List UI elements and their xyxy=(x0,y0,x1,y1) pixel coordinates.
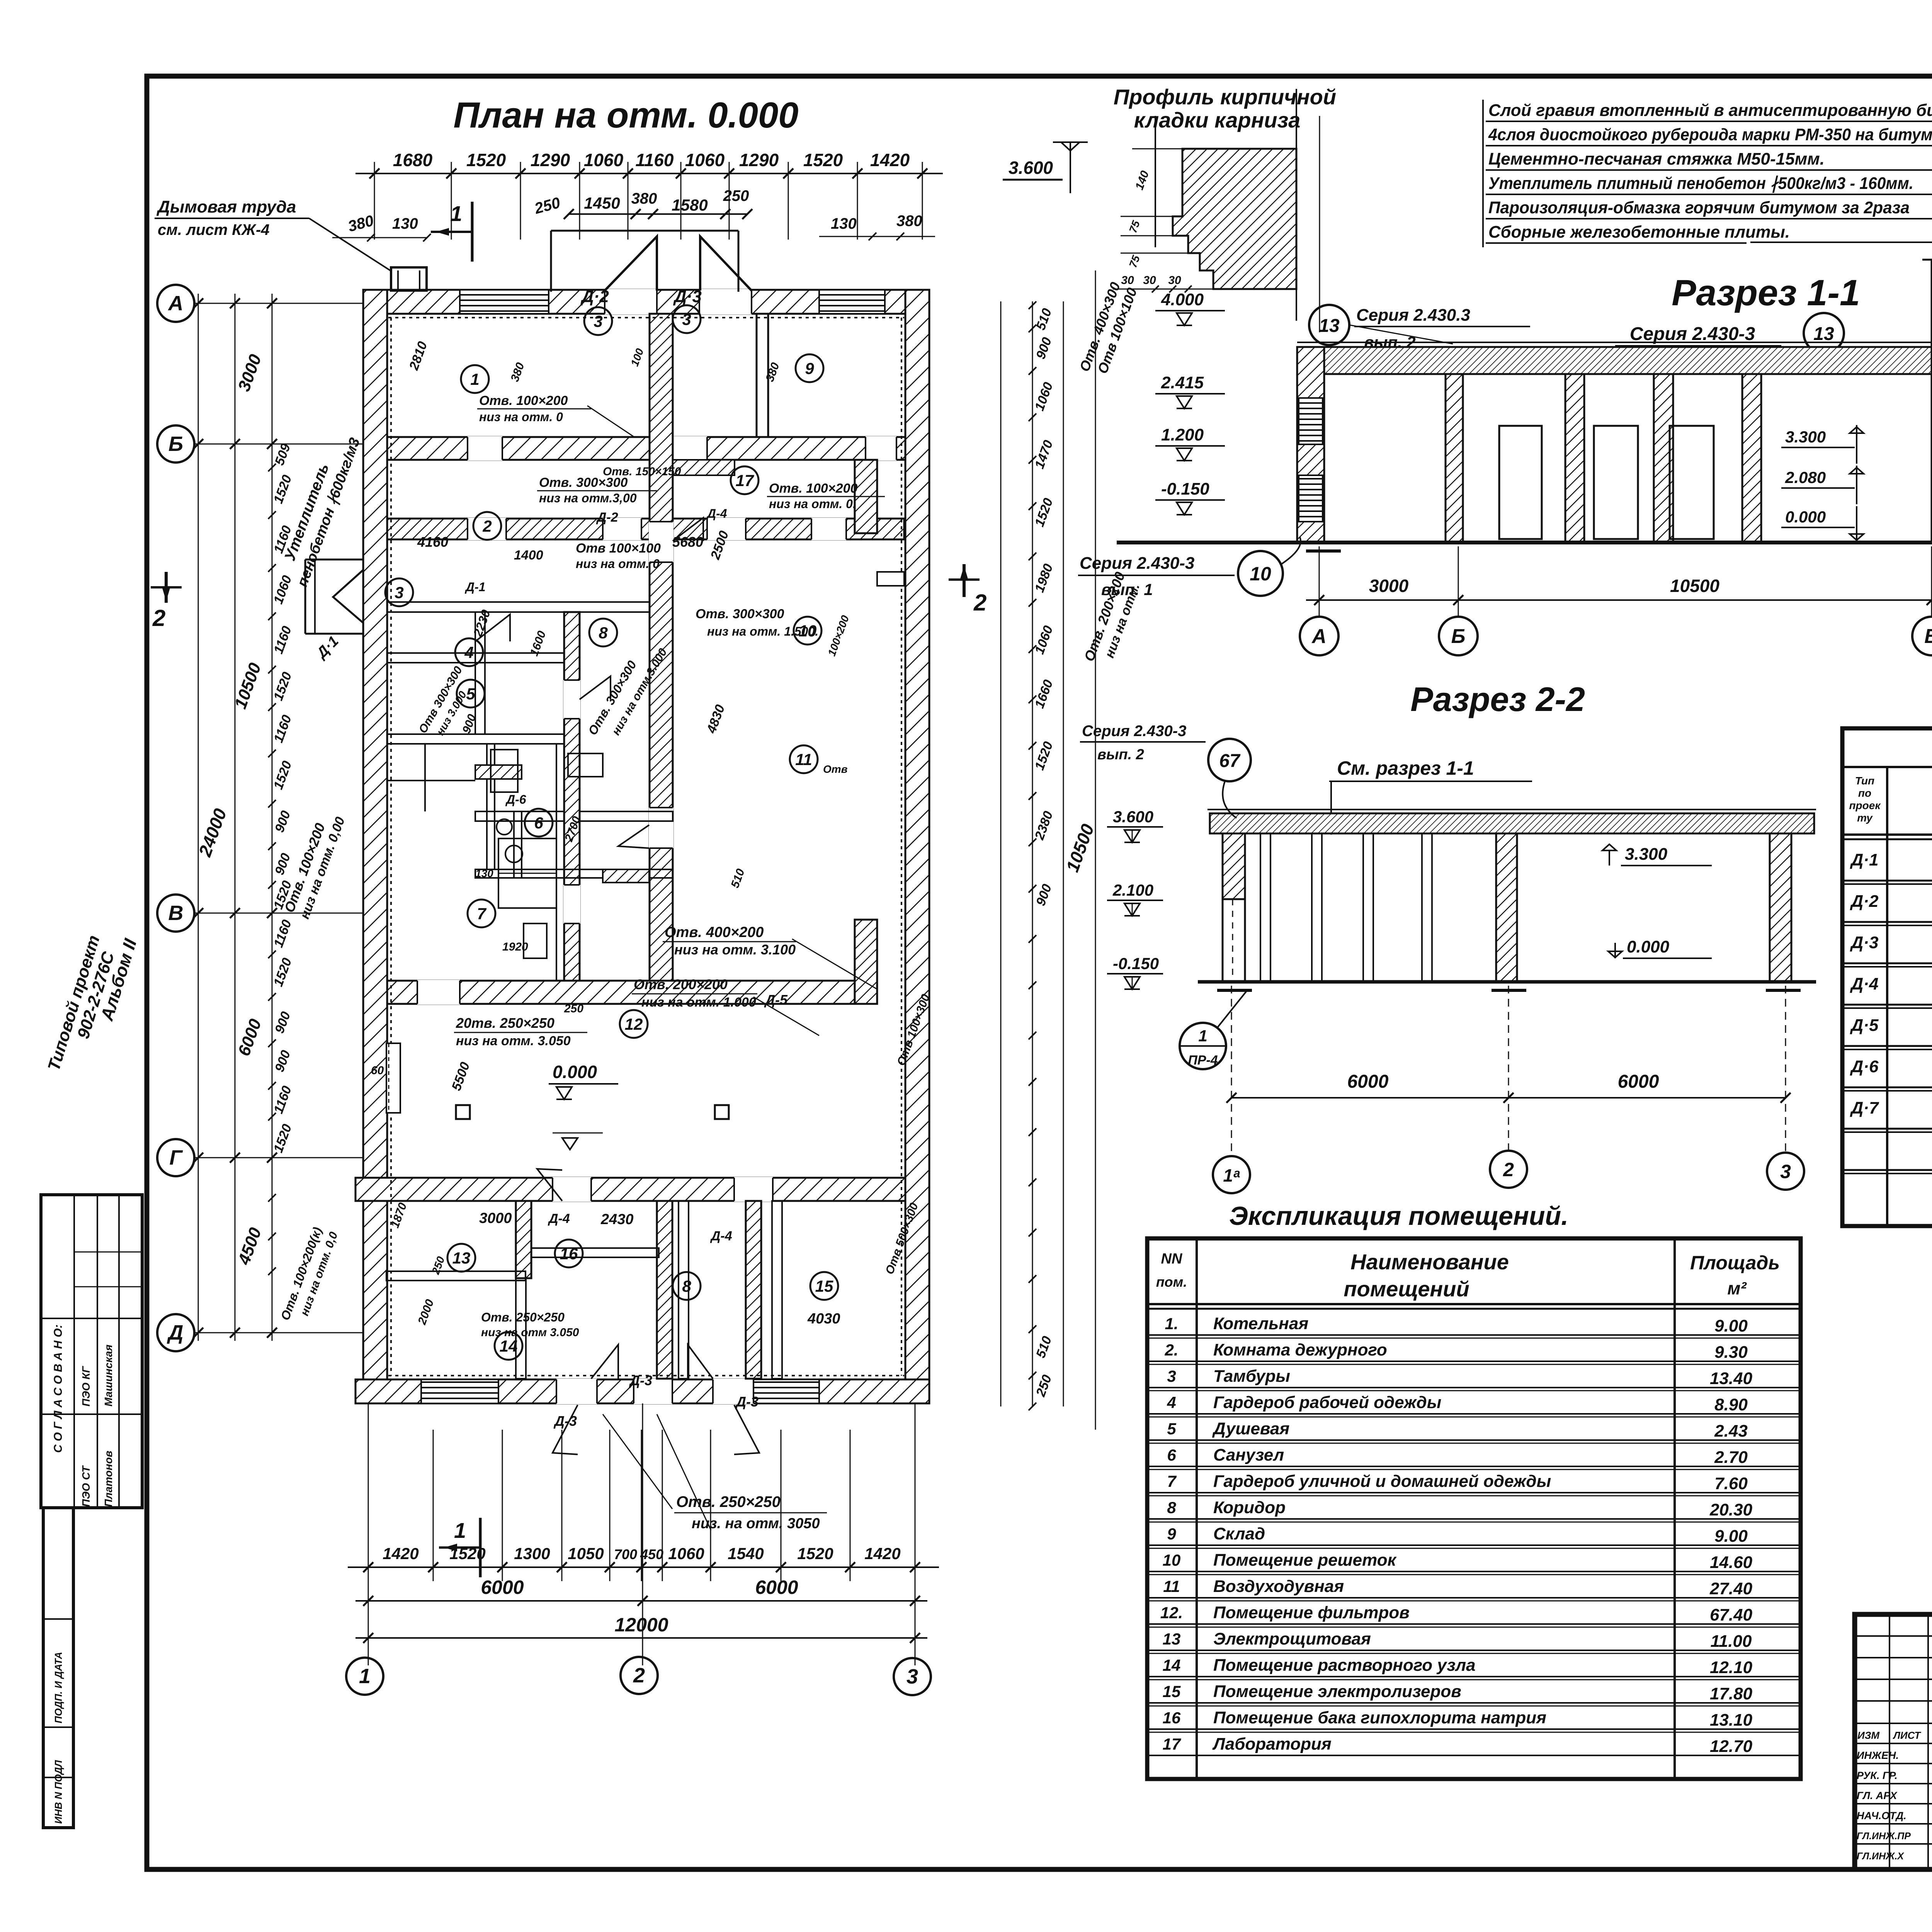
svg-text:6000: 6000 xyxy=(1347,1071,1389,1092)
svg-text:1420: 1420 xyxy=(383,1544,418,1563)
svg-text:1520: 1520 xyxy=(271,670,295,702)
svg-text:низ на отм. 0.: низ на отм. 0. xyxy=(769,497,856,511)
svg-text:1160: 1160 xyxy=(271,918,294,949)
dim line 12000 bottom xyxy=(355,1614,927,1643)
wall: bottom inner partition horizontal xyxy=(386,1248,659,1281)
dim labels 130/380 top-right xyxy=(819,213,935,240)
svg-text:Отв. 250×250: Отв. 250×250 xyxy=(481,1310,565,1324)
svg-text:Д·4: Д·4 xyxy=(1850,975,1879,993)
svg-text:9.00: 9.00 xyxy=(1714,1527,1748,1546)
svg-text:30: 30 xyxy=(1168,274,1181,287)
dim label 10500 (left) xyxy=(231,660,265,711)
svg-text:Платонов: Платонов xyxy=(102,1451,114,1507)
room number circle 15 (19) xyxy=(810,1272,838,1300)
plan annotation notes xyxy=(371,340,932,1532)
svg-text:2380: 2380 xyxy=(1032,809,1056,842)
dim chain bottom ticks xyxy=(363,1562,920,1572)
callout circle 10 xyxy=(1078,537,1301,599)
svg-text:8: 8 xyxy=(1167,1498,1176,1517)
callout 13 left leader xyxy=(1349,325,1453,344)
svg-text:Д-2: Д-2 xyxy=(596,510,618,525)
svg-text:5: 5 xyxy=(466,685,475,703)
svg-text:проек: проек xyxy=(1849,799,1881,811)
svg-text:1420: 1420 xyxy=(870,150,910,170)
svg-text:1300: 1300 xyxy=(514,1544,550,1563)
door opening row B wall 2 xyxy=(672,436,707,461)
svg-text:10500: 10500 xyxy=(231,660,265,711)
room number circle 2 (4) xyxy=(473,512,501,540)
window band bottom wall 1 xyxy=(421,1379,498,1403)
partition rooms 2/3 xyxy=(387,602,650,612)
svg-text:250: 250 xyxy=(1033,1373,1054,1399)
wall: small cell walls rooms 5-6 xyxy=(386,744,522,878)
svg-text:13: 13 xyxy=(1319,316,1340,336)
svg-text:30: 30 xyxy=(1121,274,1134,287)
axis circle А (section 1-1) xyxy=(1300,546,1338,655)
svg-text:Площадь: Площадь xyxy=(1690,1252,1780,1274)
svg-text:NN: NN xyxy=(1161,1251,1183,1267)
svg-text:100: 100 xyxy=(629,347,646,368)
dim label 3000 (left) xyxy=(235,352,265,394)
svg-text:510: 510 xyxy=(1033,1334,1054,1360)
door opening corridor-left 1 xyxy=(563,680,580,719)
dim ladder left axis ticks xyxy=(193,298,277,1338)
shower cell lines xyxy=(498,838,556,908)
svg-text:Воздуходувная: Воздуходувная xyxy=(1213,1577,1344,1596)
svg-text:1980: 1980 xyxy=(1032,562,1056,594)
svg-text:250: 250 xyxy=(564,1002,583,1015)
dim ladder right tall 10500 xyxy=(1062,270,1098,1430)
svg-text:ГЛ.ИНЖ.Х: ГЛ.ИНЖ.Х xyxy=(1857,1851,1904,1862)
svg-text:Отв. 300×300: Отв. 300×300 xyxy=(696,607,784,621)
svg-text:Д-3: Д-3 xyxy=(735,1394,759,1410)
axis circle В (section 1-1) xyxy=(1912,546,1932,655)
level mark 3.600 profile xyxy=(1003,142,1088,193)
left wall (section 2-2) xyxy=(1223,833,1245,982)
svg-text:900: 900 xyxy=(272,1048,293,1074)
svg-text:помещений: помещений xyxy=(1344,1277,1469,1301)
svg-text:Комната дежурного: Комната дежурного xyxy=(1213,1340,1387,1359)
section 1-1 subtitle xyxy=(1615,324,1781,369)
level mark spare xyxy=(0,0,0,0)
pier 4 (section 1-1) xyxy=(1742,374,1761,543)
svg-text:1540: 1540 xyxy=(728,1544,764,1563)
svg-text:низ на отм. 0: низ на отм. 0 xyxy=(576,557,660,571)
svg-text:Отв: Отв xyxy=(823,763,848,775)
svg-text:900: 900 xyxy=(272,851,293,877)
axis circle Б (section 1-1) xyxy=(1439,546,1478,655)
svg-text:Гардероб уличной и домашней од: Гардероб уличной и домашней одежды xyxy=(1213,1472,1551,1491)
svg-text:2.43: 2.43 xyxy=(1714,1422,1748,1440)
dim line 6000/6000 bottom xyxy=(355,1577,927,1665)
svg-text:Отв 100×100: Отв 100×100 xyxy=(576,541,661,556)
svg-text:3: 3 xyxy=(1167,1367,1176,1385)
svg-text:1: 1 xyxy=(450,201,462,226)
svg-text:17.80: 17.80 xyxy=(1710,1684,1753,1703)
door opening row B wall 3 xyxy=(866,436,896,461)
svg-text:Д·2: Д·2 xyxy=(580,287,609,306)
dim chain top main line xyxy=(355,173,943,174)
axis line В (plan) xyxy=(194,913,363,914)
svg-text:1160: 1160 xyxy=(271,1084,294,1116)
pier 3 (section 1-1) xyxy=(1654,374,1673,543)
svg-text:Д-3: Д-3 xyxy=(629,1372,652,1388)
svg-text:6000: 6000 xyxy=(1618,1071,1659,1092)
svg-text:2.100: 2.100 xyxy=(1112,881,1153,899)
right wall (section 2-2) xyxy=(1770,833,1791,982)
svg-text:1660: 1660 xyxy=(1032,678,1056,710)
partition bottom 16/8 xyxy=(679,1201,689,1379)
svg-text:Тамбуры: Тамбуры xyxy=(1213,1367,1290,1386)
section 2-2 title xyxy=(1410,680,1585,718)
axis circle Д (plan left) xyxy=(157,1314,194,1351)
svg-text:Электрощитовая: Электрощитовая xyxy=(1213,1629,1371,1648)
plumbing fixtures room5-6 xyxy=(491,750,603,835)
otv note right rot 2 xyxy=(1081,570,1143,663)
dim chain top labels xyxy=(393,150,910,170)
room number circle 17 (5) xyxy=(731,466,759,494)
svg-text:м²: м² xyxy=(1727,1278,1747,1298)
svg-text:Д-4: Д-4 xyxy=(548,1211,570,1226)
footings (section 1-1) xyxy=(1306,549,1932,553)
axis circle 2 (section 2-2) xyxy=(1490,1151,1527,1188)
svg-text:1060: 1060 xyxy=(1032,624,1056,656)
room number circle 7 (13) xyxy=(468,900,495,927)
svg-text:509: 509 xyxy=(272,442,293,467)
dim ladder right labels xyxy=(1032,306,1056,1399)
svg-text:Помещение бака гипохлорита нат: Помещение бака гипохлорита натрия xyxy=(1213,1708,1546,1727)
partition rooms 5/7 xyxy=(475,811,673,821)
svg-text:17: 17 xyxy=(736,471,754,490)
door opening rooms2/17 wall 3 xyxy=(707,518,746,540)
svg-text:5680: 5680 xyxy=(672,534,703,550)
doors between piers (section 1-1) xyxy=(1499,426,1714,539)
door opening bottom wall 2 xyxy=(634,1379,672,1404)
svg-text:1450: 1450 xyxy=(584,194,620,212)
axis circle Г (plan left) xyxy=(157,1139,194,1176)
svg-text:12: 12 xyxy=(625,1015,643,1033)
svg-text:7.60: 7.60 xyxy=(1714,1474,1748,1493)
wall: south of rooms 2/17 (horizontal) xyxy=(387,519,904,539)
svg-text:20.30: 20.30 xyxy=(1709,1500,1753,1519)
annotation underlines xyxy=(454,409,885,1513)
niche room12 left xyxy=(386,1043,400,1113)
svg-text:130: 130 xyxy=(831,215,857,232)
svg-text:Серия 2.430-3: Серия 2.430-3 xyxy=(1630,324,1755,344)
dim ladder left small labels xyxy=(271,442,295,1155)
svg-text:ИНВ N ПОДЛ: ИНВ N ПОДЛ xyxy=(53,1760,64,1824)
svg-text:вып. 1: вып. 1 xyxy=(1101,580,1153,599)
wall: bottom partition 16/8 hatched xyxy=(657,1201,672,1379)
svg-text:900: 900 xyxy=(1033,882,1054,908)
svg-text:900: 900 xyxy=(272,1010,293,1035)
svg-text:1520: 1520 xyxy=(1032,740,1056,772)
svg-text:13: 13 xyxy=(1163,1630,1181,1648)
room number circle 13 (15) xyxy=(447,1244,475,1272)
door opening corridor-left 2 xyxy=(563,885,580,923)
chimney on top wall xyxy=(391,267,427,291)
thin columns (section 2-2) xyxy=(1260,833,1432,982)
svg-text:Дымовая труда: Дымовая труда xyxy=(156,197,296,216)
otv note left rot 2 xyxy=(278,1225,340,1322)
svg-text:67: 67 xyxy=(1219,751,1241,771)
callout circle PR-4 xyxy=(1180,989,1248,1069)
door leafs left block xyxy=(475,518,703,848)
wall: shaft right upper xyxy=(855,460,877,533)
room number circle 9 (1) xyxy=(796,354,823,382)
svg-text:20тв. 250×250: 20тв. 250×250 xyxy=(456,1015,554,1031)
svg-text:3000: 3000 xyxy=(235,352,265,394)
wall: row G interior (horizontal) xyxy=(355,1178,905,1201)
svg-text:1160: 1160 xyxy=(271,713,294,745)
partition bottom 13/16 xyxy=(516,1201,526,1379)
svg-text:Отв. 100×200: Отв. 100×200 xyxy=(479,393,568,408)
wall stub room7 right xyxy=(603,869,649,883)
svg-text:1160: 1160 xyxy=(636,150,674,170)
svg-text:низ на отм. 1.500.: низ на отм. 1.500. xyxy=(707,624,818,638)
svg-text:1470: 1470 xyxy=(1032,438,1056,471)
svg-text:6000: 6000 xyxy=(235,1016,265,1058)
svg-text:А: А xyxy=(168,292,184,315)
wall: partition right of tambour xyxy=(757,314,768,437)
wall: shaft right lower xyxy=(855,920,877,1004)
otv note left rot xyxy=(281,815,348,921)
entrance vestibule outline (top) xyxy=(551,231,738,292)
axis line Б (plan) xyxy=(194,444,363,445)
wall: corridor south (horizontal) xyxy=(387,981,855,1004)
room number circle 6 (12) xyxy=(525,809,553,837)
svg-text:Д·1: Д·1 xyxy=(1850,850,1879,869)
svg-text:12.70: 12.70 xyxy=(1710,1737,1753,1756)
svg-text:Помещение растворного узла: Помещение растворного узла xyxy=(1213,1656,1476,1675)
svg-text:75: 75 xyxy=(1127,253,1142,269)
note: smoke flue xyxy=(155,197,390,270)
svg-text:4: 4 xyxy=(464,643,473,662)
svg-text:3000: 3000 xyxy=(1369,576,1409,596)
wc fixture xyxy=(505,845,547,958)
vedomost header row 2 xyxy=(1849,775,1932,824)
door opening rooms2/17 wall 1 xyxy=(468,518,506,540)
svg-text:ГЛ. АРХ: ГЛ. АРХ xyxy=(1857,1790,1898,1801)
door opening row G wall 2 xyxy=(734,1177,773,1202)
svg-text:Д-4: Д-4 xyxy=(706,507,727,520)
svg-text:Д-6: Д-6 xyxy=(505,793,526,806)
level 3.300 (section 2-2) xyxy=(1602,844,1712,866)
dim chain bottom ext lines xyxy=(368,1430,915,1581)
title block grid xyxy=(1855,1614,1932,1869)
explikacia header xyxy=(1156,1250,1780,1301)
axis circle В (plan left) xyxy=(157,895,194,932)
svg-text:2: 2 xyxy=(973,590,986,616)
wall: bottom partition 13/16 hatched xyxy=(516,1201,531,1278)
profile detail brick shape xyxy=(1173,149,1296,289)
svg-text:75: 75 xyxy=(1127,219,1142,234)
svg-text:14: 14 xyxy=(1163,1656,1181,1674)
svg-text:1ᵃ: 1ᵃ xyxy=(1223,1165,1240,1185)
svg-text:1420: 1420 xyxy=(864,1544,900,1563)
svg-text:24000: 24000 xyxy=(194,806,230,859)
svg-text:1520: 1520 xyxy=(271,956,295,988)
level mark 0.000 room 12 xyxy=(549,1062,618,1099)
svg-text:3: 3 xyxy=(395,583,403,602)
dim line (section 2-2) xyxy=(1226,986,1791,1155)
svg-text:низ на отм. 1.000: низ на отм. 1.000 xyxy=(641,995,756,1010)
wall: plan bottom exterior xyxy=(355,1379,929,1403)
dim ladder left verticals xyxy=(198,294,272,1341)
svg-text:3: 3 xyxy=(1780,1161,1791,1182)
svg-text:9: 9 xyxy=(805,359,814,378)
svg-text:6: 6 xyxy=(1167,1446,1176,1464)
svg-text:2: 2 xyxy=(482,517,492,535)
door opening central wall 2 xyxy=(649,808,673,848)
dim ladder right verticals xyxy=(1001,301,1063,1406)
svg-text:1520: 1520 xyxy=(271,1122,295,1155)
svg-text:Д·3: Д·3 xyxy=(673,287,702,306)
room number circle 8 (18) xyxy=(673,1272,701,1300)
svg-text:2: 2 xyxy=(633,1664,645,1687)
svg-text:27.40: 27.40 xyxy=(1709,1579,1753,1598)
svg-text:3.300: 3.300 xyxy=(1785,428,1826,446)
wall: plan right exterior xyxy=(905,290,929,1403)
svg-text:Д-3: Д-3 xyxy=(553,1413,577,1429)
level mark 4.000 (section 1-1 left ladder) xyxy=(1155,290,1225,325)
svg-text:4.000: 4.000 xyxy=(1161,290,1204,309)
dim labels (section 1-1) xyxy=(1369,576,1932,596)
svg-text:8.90: 8.90 xyxy=(1714,1395,1748,1414)
svg-text:7: 7 xyxy=(1167,1472,1177,1490)
svg-text:1: 1 xyxy=(454,1518,466,1543)
room number circle 5 (7) xyxy=(457,680,485,707)
svg-text:1060: 1060 xyxy=(271,573,295,606)
room number circle 3 (6) xyxy=(385,578,413,606)
svg-text:1060: 1060 xyxy=(584,150,624,170)
svg-text:380: 380 xyxy=(346,212,376,235)
svg-text:3: 3 xyxy=(906,1665,918,1688)
svg-text:Д·1: Д·1 xyxy=(313,633,342,662)
svg-text:10: 10 xyxy=(1250,563,1271,585)
callout circle 67 xyxy=(1208,739,1251,818)
partition rooms 4/5 xyxy=(387,734,572,744)
svg-text:1.: 1. xyxy=(1165,1315,1178,1333)
window in wall A xyxy=(1299,398,1323,522)
dim label 4500 (left) xyxy=(234,1225,265,1267)
svg-text:1060: 1060 xyxy=(685,150,725,170)
wall stub room10 niche xyxy=(877,572,904,586)
svg-text:14.60: 14.60 xyxy=(1710,1553,1753,1572)
roof slab A-V (section 1-1) xyxy=(1297,342,1932,374)
svg-text:низ на отм. 3.100: низ на отм. 3.100 xyxy=(674,942,796,957)
svg-text:10500: 10500 xyxy=(1670,576,1719,596)
pier 1 (section 1-1) xyxy=(1446,374,1463,543)
svg-text:1520: 1520 xyxy=(803,150,843,170)
svg-text:Д-4: Д-4 xyxy=(710,1229,732,1243)
svg-text:Слой гравия втопленный в антис: Слой гравия втопленный в антисептированн… xyxy=(1488,101,1932,120)
wall stub above room6 xyxy=(475,765,522,779)
room number circle 14 (17) xyxy=(495,1332,522,1360)
svg-text:1520: 1520 xyxy=(1032,496,1056,529)
level 3.300 (section 1-1 left) xyxy=(1781,425,1864,464)
dim label 24000 (left) xyxy=(194,806,230,859)
wall: plan left exterior xyxy=(363,290,387,1403)
svg-text:8: 8 xyxy=(599,624,608,642)
roof slab (section 2-2) xyxy=(1207,810,1816,833)
svg-text:4: 4 xyxy=(1167,1393,1176,1412)
svg-text:1: 1 xyxy=(1198,1027,1207,1045)
svg-text:9.30: 9.30 xyxy=(1714,1343,1748,1362)
dim chain top extension lines xyxy=(374,162,922,240)
wall: vertical corridor-left hatched xyxy=(564,612,580,981)
svg-text:4830: 4830 xyxy=(704,703,728,736)
svg-text:Помещение решеток: Помещение решеток xyxy=(1213,1551,1397,1570)
svg-text:ПОДП. И ДАТА: ПОДП. И ДАТА xyxy=(53,1652,64,1723)
svg-text:Д: Д xyxy=(167,1321,184,1344)
section mark 2 left xyxy=(151,572,182,631)
svg-text:2.080: 2.080 xyxy=(1785,468,1826,486)
insulation dashed line top wall xyxy=(388,317,904,318)
svg-text:Д·3: Д·3 xyxy=(1850,933,1879,952)
see section note xyxy=(1329,757,1532,835)
wall V (section 1-1) xyxy=(1932,275,1932,543)
axis circle 3 (plan bottom) xyxy=(894,1403,931,1695)
label D-2 xyxy=(580,287,609,306)
svg-text:380: 380 xyxy=(631,190,657,207)
svg-text:ту: ту xyxy=(1857,812,1873,824)
svg-text:Гардероб рабочей одежды: Гардероб рабочей одежды xyxy=(1213,1393,1441,1412)
dim ladder left small ticks xyxy=(268,440,276,1337)
svg-text:Отв. 400×200: Отв. 400×200 xyxy=(665,924,764,940)
level 0.000 (section 2-2) xyxy=(1608,937,1712,958)
svg-text:Отв. 200×200: Отв. 200×200 xyxy=(634,976,728,992)
svg-text:1060: 1060 xyxy=(668,1544,704,1563)
axis circle 1 (plan bottom) xyxy=(346,1403,383,1695)
svg-text:3000: 3000 xyxy=(479,1210,512,1226)
leader lines plan notes xyxy=(587,406,877,1530)
section mark 2 right xyxy=(949,564,986,616)
svg-text:1520: 1520 xyxy=(797,1544,833,1563)
svg-text:низ на отм.3,00: низ на отм.3,00 xyxy=(539,491,637,505)
svg-text:12000: 12000 xyxy=(614,1614,668,1636)
svg-text:5: 5 xyxy=(1167,1420,1176,1438)
door opening bottom wall 1 xyxy=(556,1379,597,1404)
svg-text:низ на отм. 3.050: низ на отм. 3.050 xyxy=(456,1034,571,1048)
svg-text:2: 2 xyxy=(152,605,165,631)
room number circle 8 (9) xyxy=(589,619,617,646)
svg-text:4030: 4030 xyxy=(807,1311,840,1327)
svg-text:380: 380 xyxy=(764,361,782,384)
callout circle 13 (left) xyxy=(1309,305,1349,345)
explikacia table data xyxy=(1160,1314,1753,1756)
label D-3 xyxy=(673,287,702,306)
svg-text:2.415: 2.415 xyxy=(1161,373,1204,392)
svg-text:Разрез 1-1: Разрез 1-1 xyxy=(1672,272,1860,313)
svg-text:А: А xyxy=(1311,625,1327,648)
svg-text:1: 1 xyxy=(359,1665,371,1688)
vedomost table grid xyxy=(1842,728,1932,1226)
svg-text:1.200: 1.200 xyxy=(1161,425,1204,444)
svg-text:Д·6: Д·6 xyxy=(1850,1057,1879,1076)
svg-text:1: 1 xyxy=(470,370,479,388)
svg-text:1580: 1580 xyxy=(672,196,707,214)
svg-text:Отв. 150×150: Отв. 150×150 xyxy=(603,465,681,478)
svg-text:510: 510 xyxy=(729,867,747,890)
partition room14 shelf xyxy=(386,1271,516,1281)
window band top wall 1 xyxy=(460,290,549,314)
door opening row G wall 1 xyxy=(553,1177,591,1202)
vedomost table data xyxy=(1850,849,1932,1162)
level 0.000 (section 1-1 left) xyxy=(1781,506,1864,541)
callout circle 13 (right) xyxy=(1804,313,1844,353)
svg-text:низ на отм 3.050: низ на отм 3.050 xyxy=(481,1326,579,1339)
